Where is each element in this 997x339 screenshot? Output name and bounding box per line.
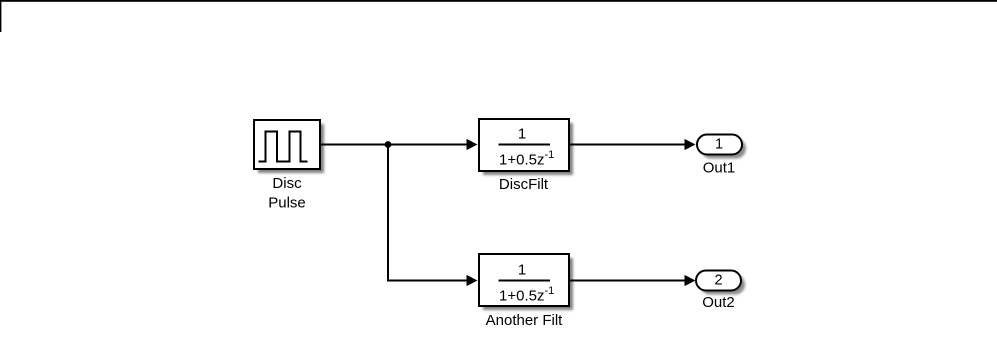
svg-text:1: 1 bbox=[518, 126, 526, 143]
svg-text:Out1: Out1 bbox=[703, 160, 736, 177]
wire branch to Another Filt input bbox=[387, 275, 478, 286]
frame top border bbox=[0, 0, 997, 2]
wire branch down from junction bbox=[387, 145, 389, 281]
pulse generator block Disc Pulse bbox=[254, 120, 324, 173]
svg-text:2: 2 bbox=[714, 273, 722, 289]
svg-text:Pulse: Pulse bbox=[268, 195, 306, 212]
svg-text:Out2: Out2 bbox=[702, 294, 735, 311]
label Disc Pulse bbox=[268, 175, 306, 212]
discrete filter block Another Filt bbox=[479, 254, 573, 310]
svg-text:Another Filt: Another Filt bbox=[486, 312, 564, 329]
svg-text:1: 1 bbox=[518, 262, 526, 279]
junction node bbox=[385, 141, 392, 148]
svg-text:1: 1 bbox=[715, 137, 723, 153]
discrete filter block DiscFilt bbox=[479, 119, 573, 175]
svg-text:Disc: Disc bbox=[272, 175, 302, 192]
svg-text:DiscFilt: DiscFilt bbox=[499, 176, 549, 193]
wire Disc Pulse output to DiscFilt input bbox=[321, 139, 478, 150]
outport Out1 bbox=[697, 135, 746, 159]
frame left border bbox=[0, 0, 1, 32]
wire DiscFilt output to Out1 bbox=[570, 139, 696, 150]
outport Out2 bbox=[696, 271, 745, 295]
wire Another Filt output to Out2 bbox=[570, 275, 696, 286]
